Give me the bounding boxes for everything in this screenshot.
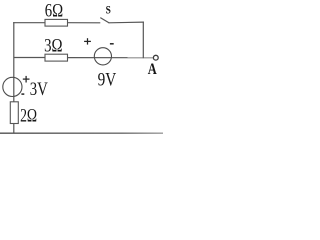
battery source B1 9V (circle): [94, 48, 111, 65]
svg-text:9V: 9V: [98, 69, 117, 90]
wire: left vertical branch (top corner down to 3V source): [13, 22, 15, 78]
wire: right vertical from top corner down to middle wire: [142, 22, 144, 59]
wire: bottom horizontal wire full width: [0, 132, 163, 134]
wire: left vertical below 2-ohm resistor to bottom wire: [13, 124, 15, 134]
wire: top segment between 6-ohm resistor and switch: [68, 22, 101, 24]
label + polarity of 3V: [23, 76, 30, 83]
terminal A (open circle): [153, 55, 158, 60]
label - polarity of 3V: [21, 93, 24, 95]
resistor R1 6-ohm (box on top wire): [45, 19, 68, 26]
wire: middle segment from 3-ohm resistor through 9V source to terminal A: [68, 57, 154, 59]
resistor R3 2-ohm (vertical box on left branch): [10, 102, 18, 124]
wire: top segment from switch to top-right corner: [109, 21, 144, 24]
resistor R2 3-ohm (box on middle wire): [45, 54, 68, 61]
svg-text:2Ω: 2Ω: [20, 105, 37, 125]
svg-text:3Ω: 3Ω: [44, 35, 62, 56]
svg-text:6Ω: 6Ω: [45, 0, 63, 21]
wire: left vertical through 3V source circle: [13, 78, 15, 102]
wire: middle horizontal segment from left vertical to 3-ohm resistor: [14, 57, 46, 59]
svg-text:S: S: [106, 5, 111, 17]
switch S (open blade): [100, 18, 109, 23]
svg-text:3V: 3V: [30, 78, 48, 99]
label - polarity of 9V: [110, 43, 114, 45]
wire: top-left horizontal segment from left vertical to 6-ohm resistor: [13, 22, 45, 24]
battery source B2 3V (circle on left vertical): [3, 77, 22, 96]
svg-text:A: A: [148, 61, 158, 79]
label + polarity of 9V: [84, 38, 91, 44]
